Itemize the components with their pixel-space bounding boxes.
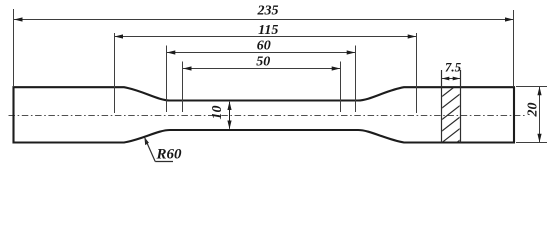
extension line right (60)	[355, 46, 357, 113]
dimension line 20 (vertical)	[539, 87, 541, 142]
svg-text:50: 50	[256, 55, 270, 70]
svg-text:60: 60	[257, 39, 271, 54]
svg-text:235: 235	[257, 4, 279, 19]
extension line right (50)	[340, 62, 342, 113]
hatch band left edge / extension line (7.5)	[441, 70, 443, 143]
dimension line 7.5	[442, 78, 460, 80]
leader arrow R60	[144, 137, 149, 145]
extension line left (115)	[114, 33, 116, 113]
svg-text:20: 20	[526, 103, 541, 118]
extension line left (235)	[13, 9, 15, 86]
dimension arrow 10 (vertical)	[229, 102, 231, 129]
hatch lines	[440, 70, 462, 156]
svg-text:10: 10	[210, 106, 225, 120]
extension tick bottom (20)	[516, 142, 547, 144]
extension line right (115)	[416, 33, 418, 113]
dimension line 50	[183, 68, 340, 70]
dimension line 60	[167, 52, 355, 54]
svg-text:R60: R60	[156, 146, 183, 162]
extension line left (50)	[182, 62, 184, 113]
specimen outline	[14, 87, 515, 142]
svg-text:7.5: 7.5	[445, 59, 462, 74]
extension tick top (20)	[516, 86, 547, 88]
extension line left (60)	[166, 46, 168, 113]
extension line right (235)	[513, 10, 515, 86]
svg-text:115: 115	[258, 23, 278, 38]
dimension line 235	[14, 19, 514, 21]
hatch band right edge / extension line (7.5)	[460, 70, 462, 143]
dimension line 115	[115, 36, 417, 38]
centerline (dash-dot axis)	[9, 115, 527, 117]
